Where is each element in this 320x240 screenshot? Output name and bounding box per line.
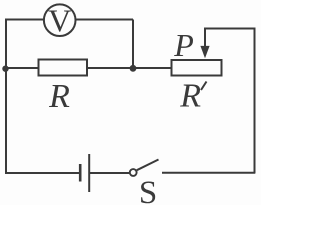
- svg-text:R: R: [179, 77, 201, 114]
- svg-text:V: V: [48, 2, 71, 38]
- voltmeter U1: [44, 4, 76, 36]
- wire right vertical: [254, 28, 256, 174]
- rheostat wiper arrow stem: [204, 28, 206, 49]
- wire bottom-left horizontal to battery: [5, 172, 79, 174]
- wire voltmeter right lead: [76, 19, 134, 21]
- wire resistor R to node B: [88, 67, 133, 69]
- battery BT1 short plate (negative): [79, 164, 82, 182]
- wire top-left horizontal (voltmeter left lead): [6, 19, 44, 21]
- wire switch to bottom-right corner: [162, 172, 255, 174]
- label prime mark of R': [201, 82, 207, 91]
- wire top-right horizontal: [205, 28, 255, 30]
- switch S pivot circle: [130, 169, 137, 176]
- wire node B to rheostat R': [133, 67, 171, 69]
- wire node A to resistor R: [6, 67, 39, 69]
- wire battery to switch: [90, 172, 130, 174]
- wire vertical down to node B: [132, 20, 134, 69]
- rheostat wiper arrowhead: [200, 46, 209, 58]
- resistor R: [39, 60, 88, 76]
- switch S blade: [137, 160, 159, 171]
- battery BT1 long plate (positive): [88, 154, 90, 192]
- wire left vertical: [5, 19, 7, 175]
- node B (right junction dot): [130, 65, 137, 72]
- svg-text:R: R: [48, 78, 70, 115]
- svg-text:P: P: [173, 27, 194, 63]
- svg-text:S: S: [139, 175, 157, 205]
- rheostat R' body: [172, 60, 222, 76]
- node A (left junction dot): [2, 66, 8, 72]
